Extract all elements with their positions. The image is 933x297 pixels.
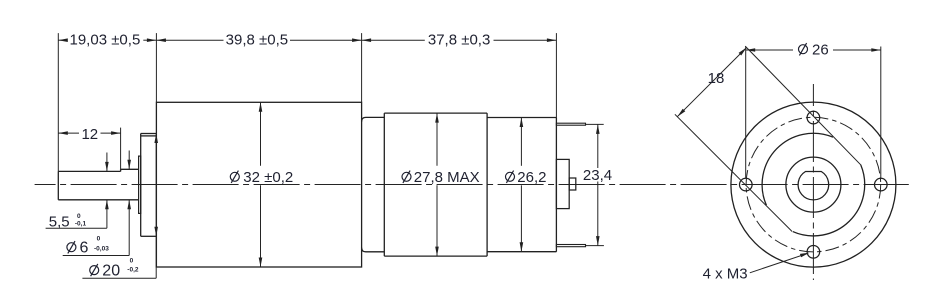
mounting hole left xyxy=(740,178,753,191)
dimension 12 line right xyxy=(101,132,121,134)
dimension dia26.2 arrow bottom xyxy=(520,242,524,252)
svg-text:19,03 ±0,5: 19,03 ±0,5 xyxy=(70,32,141,49)
dimension dia6 upper arrow xyxy=(127,160,131,170)
dimension 19,03 line left xyxy=(58,39,66,41)
dimension 12 arrow left xyxy=(58,131,68,135)
dimension 23,4 arrow top xyxy=(596,124,600,133)
svg-text:0: 0 xyxy=(77,213,81,220)
motor front bushing bottom xyxy=(362,248,385,252)
extension line left hole xyxy=(745,47,747,179)
svg-text:27,8 MAX: 27,8 MAX xyxy=(414,169,480,186)
label 4xM3 arrow xyxy=(800,253,810,258)
label 4xM3 leader xyxy=(750,253,808,273)
extension line top tab xyxy=(586,123,604,125)
shaft washer xyxy=(139,156,141,213)
svg-text:12: 12 xyxy=(81,126,98,143)
end view vertical centerline xyxy=(812,84,814,280)
dimension 39,8 arrow right xyxy=(352,38,362,42)
dimension 37,8 line left xyxy=(362,39,425,41)
dimension dia27.8 arrow bottom xyxy=(435,247,439,257)
front plate top lip line 2 xyxy=(141,135,157,137)
bottom terminal tab xyxy=(556,245,585,247)
svg-text:26: 26 xyxy=(812,42,829,59)
shaft flat top edge xyxy=(58,170,120,172)
flat extension line through left hole xyxy=(675,114,792,231)
dimension dia26 arrow right xyxy=(871,48,881,52)
dimension dia6 underline xyxy=(63,255,130,257)
dimension dia32 arrow top xyxy=(259,102,263,112)
dimension 5,5 lower leader xyxy=(106,200,108,228)
extension line at shaft end xyxy=(57,33,59,171)
dimension dia32 line lower xyxy=(260,185,262,267)
motor front bushing top xyxy=(362,117,385,121)
extension line at gearbox rear xyxy=(361,33,363,102)
dimension 18 arrow lower xyxy=(677,109,685,117)
dimension 5,5 upper arrow xyxy=(105,162,109,172)
mounting hole bottom xyxy=(807,246,820,259)
dimension 39,8 line right xyxy=(290,39,362,41)
dimension 5,5 upper leader xyxy=(106,153,108,172)
svg-text:0: 0 xyxy=(130,257,134,264)
svg-text:18: 18 xyxy=(708,70,725,87)
end cap bottom edge xyxy=(487,251,556,253)
shaft bottom edge xyxy=(58,199,138,201)
svg-text:39,8 ±0,5: 39,8 ±0,5 xyxy=(226,32,288,49)
dimension dia27.8 symbol xyxy=(402,172,411,181)
gearbox body xyxy=(156,102,361,267)
svg-text:32 ±0,2: 32 ±0,2 xyxy=(243,169,293,186)
svg-text:-0,03: -0,03 xyxy=(94,245,109,252)
dimension 23,4 line lower xyxy=(597,182,599,246)
dimension dia26 line right xyxy=(833,49,881,51)
top terminal tab xyxy=(556,123,585,125)
dimension dia26.2 arrow top xyxy=(520,118,524,128)
dimension 37,8 arrow right xyxy=(547,38,557,42)
dimension dia26.2 line upper xyxy=(520,118,522,166)
dimension 19,03 line right xyxy=(143,39,156,41)
extension line at gearbox front xyxy=(155,33,157,102)
dimension 19,03 arrow right xyxy=(147,38,157,42)
dimension dia6 symbol xyxy=(67,243,76,252)
motor body top edge xyxy=(384,112,487,114)
dimension 12 arrow right xyxy=(111,131,121,135)
dimension dia6 lower arrow xyxy=(127,200,131,210)
dimension 5,5 underline xyxy=(46,227,107,229)
end view boss circle xyxy=(786,157,841,212)
motor body right edge xyxy=(486,113,488,256)
dimension dia20 arrow bottom xyxy=(154,227,158,237)
svg-text:0: 0 xyxy=(97,236,101,243)
dimension dia26 symbol xyxy=(799,45,808,54)
dimension dia26 arrow left xyxy=(746,48,756,52)
dimension dia32 arrow bottom xyxy=(259,258,263,268)
svg-text:20: 20 xyxy=(102,262,120,279)
extension line at end cap face xyxy=(555,33,557,117)
front plate left edge xyxy=(140,134,142,237)
dimension dia32 line upper xyxy=(260,102,262,166)
dimension dia32 symbol xyxy=(230,172,239,181)
rear shaft nub xyxy=(569,178,576,190)
main horizontal centerline xyxy=(35,184,909,186)
dimension dia6 upper leader xyxy=(128,151,130,170)
dimension 39,8 line left xyxy=(156,39,223,41)
dimension 5,5 lower arrow xyxy=(105,200,109,210)
mounting hole right xyxy=(875,178,888,191)
svg-text:23,4: 23,4 xyxy=(583,167,612,184)
dimension dia20 leader xyxy=(155,236,157,278)
end cap face xyxy=(555,118,557,252)
dimension 37,8 arrow left xyxy=(362,38,372,42)
flat extension line through top hole xyxy=(745,46,861,165)
dimension dia20 line xyxy=(155,134,157,237)
end view pilot contour dia20 with flats xyxy=(762,133,865,236)
dimension 18 arrow upper xyxy=(739,48,747,56)
mounting hole top xyxy=(807,111,820,124)
svg-text:5,5: 5,5 xyxy=(49,214,70,231)
dimension dia6 lower leader xyxy=(128,200,130,256)
end view shaft circle with flat xyxy=(798,172,829,200)
end view bolt circle dia26 xyxy=(746,117,881,252)
dimension dia26 line left xyxy=(746,49,793,51)
dimension 23,4 line upper xyxy=(597,124,599,168)
dimension dia20 arrow top xyxy=(154,134,158,144)
svg-text:26,2: 26,2 xyxy=(517,169,546,186)
dimension 19,03 arrow left xyxy=(58,38,68,42)
rear bearing boss xyxy=(556,159,569,208)
extension line right hole xyxy=(880,47,882,179)
svg-text:6: 6 xyxy=(80,240,89,257)
dimension 18 line xyxy=(677,48,746,117)
svg-text:4 x M3: 4 x M3 xyxy=(703,266,748,283)
dimension dia20 symbol xyxy=(90,266,99,275)
dimension dia27.8 arrow top xyxy=(435,113,439,123)
motor body bottom edge xyxy=(384,255,487,257)
front plate top lip line 1 xyxy=(141,133,157,135)
front plate bottom edge xyxy=(141,235,157,237)
extension line shaft flat end xyxy=(120,128,122,172)
svg-text:37,8 ±0,3: 37,8 ±0,3 xyxy=(428,32,490,49)
dimension dia26.2 line lower xyxy=(520,185,522,251)
svg-text:-0,2: -0,2 xyxy=(127,266,139,273)
dimension dia27.8 line upper xyxy=(436,113,438,166)
dimension 37,8 line right xyxy=(494,39,557,41)
dimension dia27.8 line lower xyxy=(436,185,438,256)
dimension 12 line left xyxy=(58,132,79,134)
end cap top edge xyxy=(487,117,556,119)
end view outer circle xyxy=(731,102,896,267)
extension line bottom tab xyxy=(586,245,604,247)
shaft flat step xyxy=(120,169,122,171)
dimension 23,4 arrow bottom xyxy=(596,236,600,246)
svg-text:-0,1: -0,1 xyxy=(75,221,87,228)
dimension 39,8 arrow left xyxy=(156,38,166,42)
shaft end face xyxy=(57,171,59,199)
shaft round top edge xyxy=(121,168,139,170)
dimension dia20 underline xyxy=(82,277,156,279)
dimension dia26.2 symbol xyxy=(506,172,515,181)
motor body left edge xyxy=(383,113,385,256)
